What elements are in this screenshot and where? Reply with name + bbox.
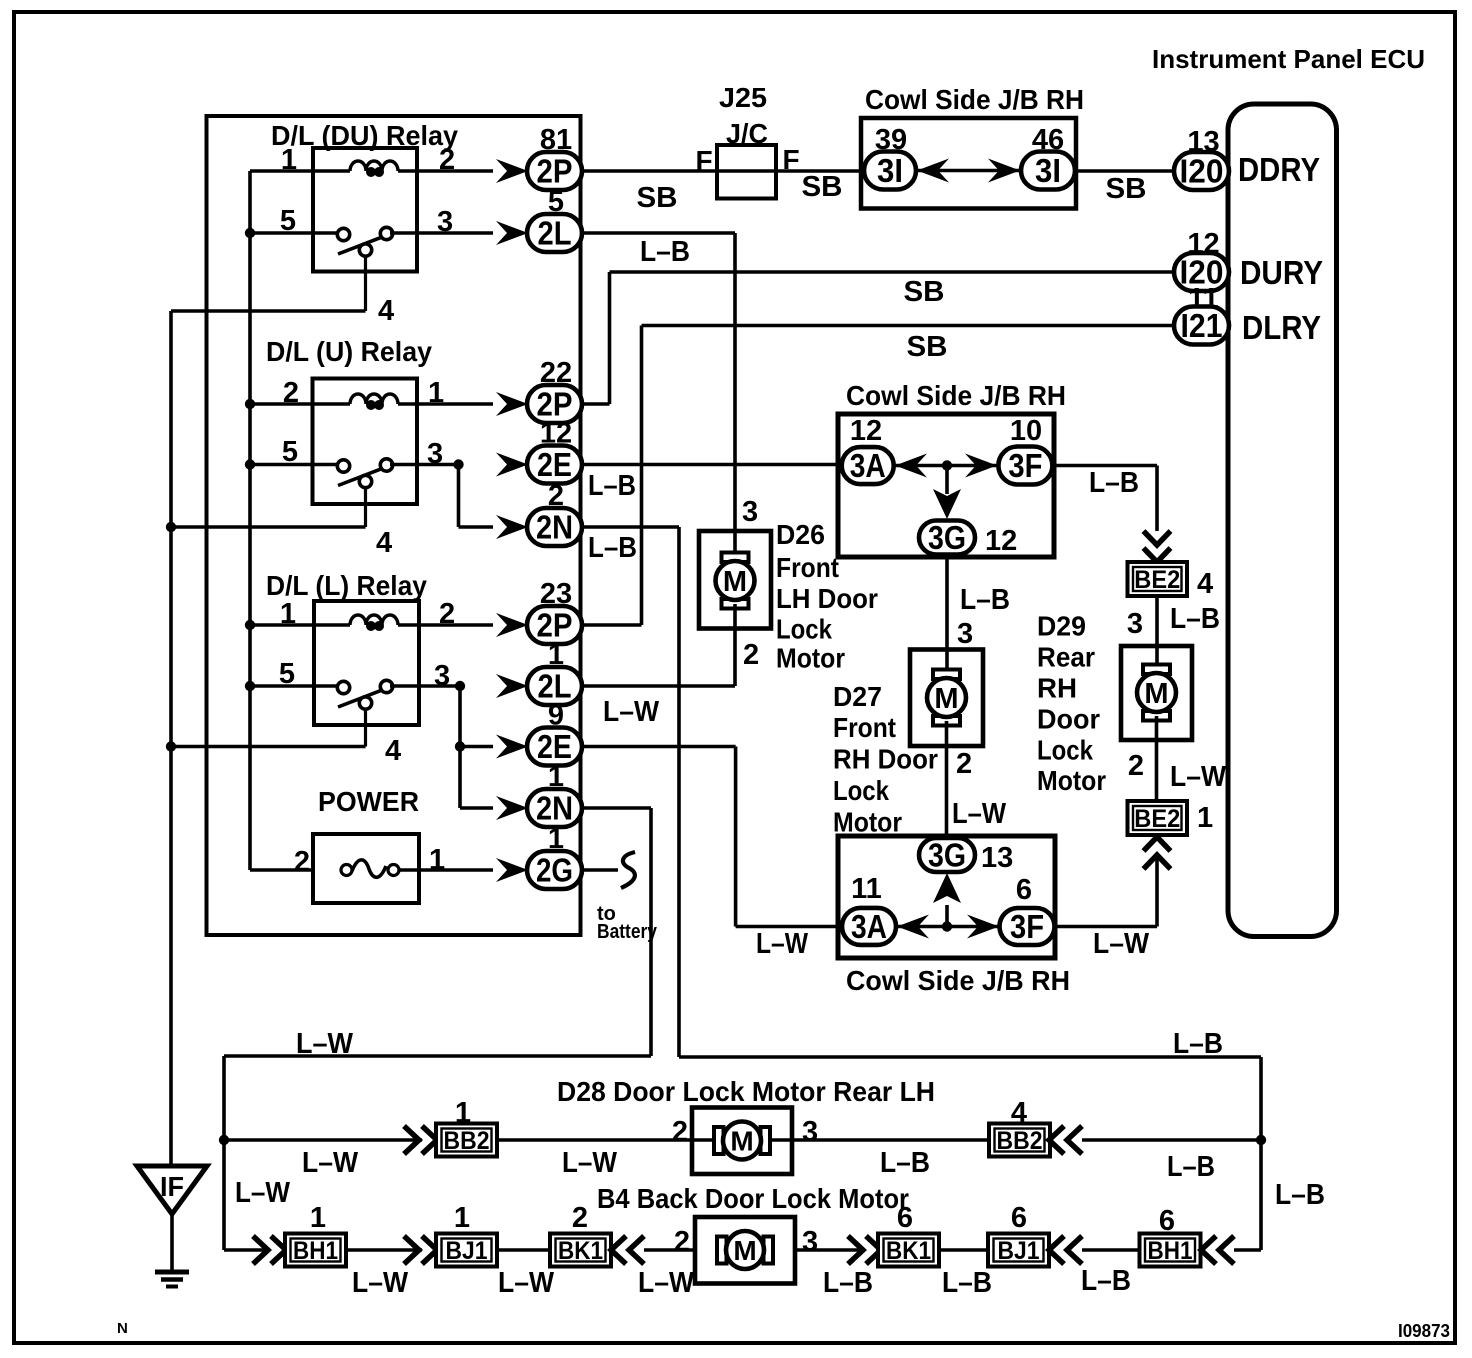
svg-text:L–W: L–W bbox=[638, 1267, 695, 1299]
connector oval 3A pin 11 (bottom) bbox=[842, 908, 896, 945]
connector 2N pin 2 (y=527) arrow bbox=[496, 515, 528, 539]
svg-text:L–W: L–W bbox=[1170, 761, 1227, 793]
svg-text:2: 2 bbox=[572, 1202, 588, 1234]
ground stem bbox=[170, 1214, 174, 1271]
relay D/L (DU) switch bbox=[364, 254, 367, 311]
svg-text:1: 1 bbox=[429, 844, 445, 876]
D29 pin 2 wire to BE2 pin 1 (L-W) bbox=[1155, 716, 1159, 801]
relay D/L (L) coil bbox=[350, 615, 398, 625]
POWER pin 1 wire bbox=[399, 868, 493, 872]
svg-text:3F: 3F bbox=[1008, 447, 1042, 484]
connector box BJ1 pin 6 bbox=[988, 1234, 1049, 1267]
POWER fuse box bbox=[313, 834, 419, 903]
svg-text:4: 4 bbox=[376, 527, 392, 559]
POWER fuse element bbox=[341, 865, 352, 876]
connector box BB2 pin 1 bbox=[436, 1124, 497, 1157]
svg-text:Front: Front bbox=[833, 712, 896, 743]
svg-text:2G: 2G bbox=[536, 852, 573, 889]
chevrons into BH1 pin 1 bbox=[253, 1236, 268, 1264]
connector 2P pin 22 (y=404) arrow bbox=[496, 392, 528, 416]
motor D29 rear RH door lock bbox=[1121, 646, 1192, 740]
svg-text:SB: SB bbox=[907, 331, 948, 363]
wire 3F to BE2 (L-B) bbox=[1053, 464, 1157, 468]
connector oval 2P pin 81 bbox=[527, 152, 582, 190]
svg-text:1: 1 bbox=[548, 761, 564, 793]
svg-text:Motor: Motor bbox=[833, 807, 902, 838]
svg-text:2: 2 bbox=[294, 846, 310, 878]
svg-text:3: 3 bbox=[427, 438, 443, 470]
svg-text:Lock: Lock bbox=[1037, 734, 1093, 765]
svg-text:L–B: L–B bbox=[960, 584, 1010, 616]
svg-text:Motor: Motor bbox=[776, 643, 845, 674]
svg-text:D/L (L) Relay: D/L (L) Relay bbox=[266, 570, 427, 601]
wire B4 motor to BK1 (L-B) bbox=[795, 1248, 864, 1252]
connector oval I20 pin 13 (DDRY) bbox=[1174, 152, 1229, 190]
battery break squiggle bbox=[621, 852, 635, 888]
svg-text:2: 2 bbox=[956, 748, 972, 780]
relay D/L (L) pin 3 wire bbox=[390, 684, 460, 688]
svg-text:5: 5 bbox=[282, 436, 298, 468]
svg-text:3: 3 bbox=[437, 206, 453, 238]
Cowl Side J/B RH box (middle) bbox=[838, 414, 1054, 557]
svg-text:L–B: L–B bbox=[640, 236, 690, 268]
relay D/L (DU) pin 1 wire bbox=[250, 169, 350, 173]
chevrons out of BB2 pin 4 bbox=[1049, 1126, 1064, 1154]
svg-text:11: 11 bbox=[851, 873, 882, 905]
svg-text:J25: J25 bbox=[719, 82, 767, 113]
connector 2E pin 12 (y=464.5) arrow bbox=[496, 453, 528, 477]
svg-text:2: 2 bbox=[283, 377, 299, 409]
svg-text:L–W: L–W bbox=[756, 928, 809, 960]
svg-text:1: 1 bbox=[548, 639, 564, 671]
ground IF triangle bbox=[137, 1166, 207, 1214]
svg-text:SB: SB bbox=[802, 171, 843, 203]
svg-text:L–B: L–B bbox=[1081, 1265, 1131, 1297]
wire 2N(1) right and down to rear door circuits (L-W) bbox=[582, 806, 651, 810]
svg-text:12: 12 bbox=[1187, 228, 1219, 260]
chevrons into BJ1 pin 1 bbox=[404, 1236, 419, 1264]
svg-text:3: 3 bbox=[742, 496, 758, 528]
connector 2E pin 9 (y=746.5) arrow bbox=[496, 735, 528, 759]
svg-text:L–W: L–W bbox=[1093, 928, 1150, 960]
svg-text:1: 1 bbox=[455, 1097, 471, 1129]
junction dots on left bus bbox=[245, 228, 255, 238]
relay D/L (DU) box bbox=[313, 148, 417, 272]
connector oval 3A pin 12 bbox=[842, 447, 894, 484]
relay D/L (DU) pin 5 wire bbox=[250, 231, 338, 235]
svg-text:Cowl Side J/B RH: Cowl Side J/B RH bbox=[846, 965, 1070, 996]
svg-text:12: 12 bbox=[540, 418, 572, 450]
chevrons into BB2 pin 1 bbox=[404, 1126, 419, 1154]
connector oval 3F pin 10 bbox=[998, 447, 1052, 485]
wire B4 row from left vertical bbox=[224, 1248, 270, 1252]
connector oval 2P pin 23 bbox=[527, 606, 582, 644]
svg-text:SB: SB bbox=[904, 276, 945, 308]
relay D/L (DU) pin 3 wire bbox=[390, 231, 493, 235]
svg-text:4: 4 bbox=[1011, 1097, 1027, 1129]
chevrons out of BK1 pin 2 bbox=[611, 1236, 626, 1264]
svg-text:1: 1 bbox=[454, 1202, 470, 1234]
chevrons into BK1 pin 6 bbox=[848, 1236, 863, 1264]
connector oval 3I pin 46 bbox=[1021, 152, 1075, 190]
svg-text:22: 22 bbox=[540, 357, 572, 389]
connector box BK1 pin 6 bbox=[878, 1234, 939, 1267]
svg-text:L–W: L–W bbox=[352, 1267, 409, 1299]
svg-text:Lock: Lock bbox=[833, 775, 889, 806]
svg-text:DDRY: DDRY bbox=[1238, 151, 1320, 188]
connector oval 2E pin 9 bbox=[527, 728, 582, 766]
relay D/L (U) pin 5 wire bbox=[250, 463, 338, 467]
wire BK1 to BJ1 (L-B) bbox=[937, 1248, 990, 1252]
junction dot left D28 bbox=[219, 1135, 229, 1145]
wire BK1 to B4 motor (L-W) bbox=[644, 1248, 695, 1252]
connector 2N pin 1 (y=808) arrow bbox=[496, 796, 528, 820]
relay D/L (DU) coil bbox=[350, 161, 398, 171]
svg-text:2: 2 bbox=[439, 144, 455, 176]
svg-text:Cowl Side J/B RH: Cowl Side J/B RH bbox=[846, 380, 1066, 411]
relay D/L (DU) pin 2 wire bbox=[398, 169, 493, 173]
svg-text:2: 2 bbox=[548, 480, 564, 512]
wire 2E(12) to cowl 3A (L-B) bbox=[582, 463, 843, 467]
svg-text:BH1: BH1 bbox=[293, 1237, 338, 1265]
arrow into 3A bbox=[895, 454, 927, 478]
junction block J25 J/C box bbox=[717, 145, 776, 199]
wire 2P(22) up and right to I20 DURY (SB) bbox=[582, 402, 610, 406]
relay D/L (U) pin 4 wire to ground bus bbox=[171, 525, 366, 529]
connector oval 3I pin 39 bbox=[864, 152, 916, 190]
wire 3A to 3F bbox=[894, 464, 998, 468]
svg-text:BH1: BH1 bbox=[1148, 1237, 1193, 1265]
far-left ground wire vertical x=171 bbox=[169, 311, 173, 1166]
svg-text:12: 12 bbox=[985, 525, 1017, 557]
arrow into 3F (bottom) bbox=[967, 915, 999, 939]
svg-text:3: 3 bbox=[802, 1226, 818, 1258]
connector box BK1 pin 2 bbox=[550, 1234, 611, 1267]
svg-text:2: 2 bbox=[743, 639, 759, 671]
connector oval 2N pin 1 bbox=[527, 789, 582, 827]
svg-text:1: 1 bbox=[548, 823, 564, 855]
svg-text:5: 5 bbox=[548, 186, 564, 218]
svg-text:4: 4 bbox=[378, 295, 394, 327]
svg-text:M: M bbox=[723, 566, 747, 598]
relay D/L (U) coil bbox=[350, 394, 398, 404]
svg-text:L–W: L–W bbox=[562, 1147, 618, 1179]
svg-text:Rear: Rear bbox=[1037, 642, 1095, 673]
svg-text:6: 6 bbox=[1016, 874, 1032, 906]
chevrons out of BE2 pin 1 bbox=[1144, 837, 1171, 851]
left bus wire vertical x=250 bbox=[248, 171, 252, 870]
svg-text:46: 46 bbox=[1032, 124, 1064, 156]
svg-text:2L: 2L bbox=[538, 215, 572, 252]
connector oval 3F pin 6 (bottom) bbox=[1000, 908, 1055, 945]
arrow into 3A (bottom) bbox=[897, 915, 929, 939]
relay D/L (L) box bbox=[314, 601, 419, 725]
junction dot to 3G bbox=[942, 460, 952, 470]
svg-text:3A: 3A bbox=[850, 447, 886, 484]
connector box BE2 pin 4 bbox=[1128, 562, 1188, 596]
svg-text:5: 5 bbox=[279, 658, 295, 690]
wire 2P(81) to J25 J/C and cowl side J/B (SB) bbox=[582, 169, 864, 173]
svg-text:D/L (U) Relay: D/L (U) Relay bbox=[266, 336, 432, 367]
connector 2P pin 81 (y=171) arrow bbox=[496, 159, 528, 183]
svg-text:RH Door: RH Door bbox=[833, 744, 938, 775]
wire 2G to battery bbox=[582, 868, 618, 872]
wire 2P(23) up and right to I21 DLRY (SB) bbox=[582, 623, 642, 627]
svg-text:L–B: L–B bbox=[1170, 603, 1220, 635]
svg-text:F: F bbox=[782, 144, 799, 175]
svg-text:39: 39 bbox=[875, 124, 907, 156]
wire 2E(12) junction to 2N(2) bbox=[457, 465, 461, 528]
svg-text:L–B: L–B bbox=[942, 1267, 992, 1299]
svg-text:6: 6 bbox=[1159, 1205, 1175, 1237]
junction dot below 3G bbox=[942, 921, 952, 931]
svg-text:3: 3 bbox=[434, 660, 450, 692]
svg-text:L–B: L–B bbox=[1173, 1028, 1223, 1060]
svg-text:Lock: Lock bbox=[776, 614, 832, 645]
junction dots on ground bus bbox=[166, 522, 176, 532]
svg-text:2: 2 bbox=[1128, 750, 1144, 782]
connector box BE2 pin 1 bbox=[1128, 801, 1188, 835]
svg-text:D27: D27 bbox=[833, 681, 882, 712]
svg-text:BJ1: BJ1 bbox=[998, 1237, 1040, 1265]
svg-text:81: 81 bbox=[540, 124, 572, 156]
connector oval I21 pin 11 (DLRY) bbox=[1174, 307, 1229, 345]
svg-text:10: 10 bbox=[1010, 415, 1042, 447]
svg-text:L–W: L–W bbox=[498, 1267, 555, 1299]
connector oval 2P pin 22 bbox=[527, 385, 582, 423]
relay/fuse block outer box bbox=[207, 116, 581, 935]
arrow into 3F bbox=[965, 454, 997, 478]
connector box BB2 pin 4 bbox=[989, 1124, 1050, 1157]
connector 2L pin 5 (y=233) arrow bbox=[496, 221, 528, 245]
svg-text:6: 6 bbox=[1011, 1202, 1027, 1234]
svg-text:2P: 2P bbox=[537, 607, 573, 644]
wire 2E(9) down to bottom cowl 3A (L-W) bbox=[582, 745, 736, 749]
up arrow into 3G bbox=[945, 905, 949, 927]
svg-text:3I: 3I bbox=[877, 152, 903, 189]
svg-text:3A: 3A bbox=[851, 908, 887, 945]
svg-text:L–B: L–B bbox=[588, 470, 636, 502]
relay D/L (U) pin 3 wire bbox=[390, 463, 459, 467]
wire D28 row left (L-W) bbox=[224, 1138, 422, 1142]
motor B4 back door lock bbox=[695, 1217, 795, 1284]
svg-text:BE2: BE2 bbox=[1134, 566, 1180, 594]
relay D/L (DU) pin 4 wire to ground bus bbox=[171, 309, 366, 313]
relay D/L (U) pin 1 wire bbox=[398, 402, 493, 406]
svg-text:IF: IF bbox=[160, 1171, 184, 1202]
svg-text:M: M bbox=[733, 1235, 756, 1266]
svg-text:Motor: Motor bbox=[1037, 765, 1106, 796]
relay D/L (U) pin 2 wire bbox=[250, 402, 350, 406]
D26 pin 2 wire to 2L(1) bbox=[733, 604, 737, 686]
svg-text:BE2: BE2 bbox=[1134, 805, 1180, 833]
wire BB2 pin4 to right vertical (L-B) bbox=[1082, 1138, 1261, 1142]
svg-text:BK1: BK1 bbox=[886, 1237, 931, 1265]
svg-text:3: 3 bbox=[802, 1116, 818, 1148]
svg-text:23: 23 bbox=[540, 578, 572, 610]
svg-text:DLRY: DLRY bbox=[1242, 309, 1321, 346]
connector oval 3G pin 13 (bottom) bbox=[919, 838, 975, 872]
connector oval 2G pin 1 bbox=[527, 851, 582, 889]
relay D/L (L) pin 1 wire bbox=[250, 623, 350, 627]
svg-text:1: 1 bbox=[281, 144, 297, 176]
svg-text:6: 6 bbox=[897, 1202, 913, 1234]
svg-text:BK1: BK1 bbox=[558, 1237, 603, 1265]
svg-text:L–B: L–B bbox=[1275, 1179, 1325, 1211]
svg-text:13: 13 bbox=[1187, 126, 1219, 158]
svg-text:LH Door: LH Door bbox=[776, 583, 878, 614]
svg-text:2N: 2N bbox=[536, 509, 573, 546]
chevrons into BE2 pin 4 bbox=[1144, 531, 1171, 545]
arrow into left 3I bbox=[917, 159, 949, 183]
svg-text:3I: 3I bbox=[1035, 152, 1061, 189]
relay D/L (U) box bbox=[313, 379, 418, 505]
wire down to 3G with arrow bbox=[945, 466, 949, 495]
svg-text:Instrument Panel ECU: Instrument Panel ECU bbox=[1152, 44, 1425, 74]
wire 3G to D27 pin 3 (L-B) bbox=[945, 555, 949, 675]
relay D/L (U) switch bbox=[364, 486, 367, 528]
svg-text:L–B: L–B bbox=[1089, 467, 1139, 499]
connector oval 2N pin 2 bbox=[527, 508, 582, 546]
wire right 3I to I20 DDRY (SB) bbox=[1075, 169, 1175, 173]
svg-text:2: 2 bbox=[439, 598, 455, 630]
svg-text:4: 4 bbox=[1197, 568, 1213, 600]
svg-text:9: 9 bbox=[548, 700, 564, 732]
svg-text:M: M bbox=[730, 1126, 753, 1157]
connector 2L pin 1 (y=686) arrow bbox=[496, 674, 528, 698]
motor D26 front LH door lock bbox=[699, 531, 771, 629]
relay D/L (L) pin 5 wire bbox=[250, 684, 338, 688]
svg-text:J/C: J/C bbox=[726, 118, 768, 149]
motor D27 front RH door lock bbox=[910, 650, 983, 747]
svg-text:I20: I20 bbox=[1180, 153, 1224, 190]
wire BE2 down to bottom cowl 3F wire bbox=[1155, 855, 1159, 927]
svg-text:N: N bbox=[117, 1320, 128, 1337]
svg-text:1: 1 bbox=[310, 1202, 326, 1234]
svg-text:Cowl Side J/B RH: Cowl Side J/B RH bbox=[865, 84, 1084, 115]
connector box BJ1 pin 1 bbox=[436, 1234, 497, 1267]
wire 2L(5) to D26 pin 3 (L-B) bbox=[582, 231, 735, 235]
wire 2N(2) right and down to rear door circuits (L-B) bbox=[582, 525, 679, 529]
junction dot right D28 bbox=[1256, 1135, 1266, 1145]
svg-text:DURY: DURY bbox=[1240, 254, 1323, 291]
connector oval 2E pin 12 bbox=[527, 446, 582, 484]
Cowl Side J/B RH box (top) bbox=[861, 118, 1076, 209]
svg-text:BJ1: BJ1 bbox=[446, 1237, 488, 1265]
svg-text:D28 Door Lock Motor Rear LH: D28 Door Lock Motor Rear LH bbox=[557, 1076, 935, 1107]
connector box BH1 pin 6 bbox=[1140, 1234, 1201, 1267]
svg-text:POWER: POWER bbox=[318, 786, 419, 817]
svg-text:I09873: I09873 bbox=[1398, 1321, 1450, 1341]
wire 2L(1) junction down to 2E(9) and 2N(1) bbox=[458, 686, 462, 808]
wire BJ1 to BK1 (L-W) bbox=[497, 1248, 552, 1252]
motor D28 rear LH door lock bbox=[692, 1108, 792, 1175]
svg-text:3G: 3G bbox=[928, 519, 966, 556]
svg-text:1: 1 bbox=[428, 377, 444, 409]
svg-text:L–W: L–W bbox=[235, 1177, 291, 1209]
svg-text:2: 2 bbox=[674, 1226, 690, 1258]
wire junction to 2E(9) arrow bbox=[460, 745, 493, 749]
connector 2P pin 23 (y=625) arrow bbox=[496, 613, 528, 637]
svg-text:L–W: L–W bbox=[952, 798, 1007, 830]
svg-text:2N: 2N bbox=[536, 790, 573, 827]
svg-text:3: 3 bbox=[1127, 608, 1143, 640]
svg-text:L–W: L–W bbox=[603, 696, 660, 728]
D27 pin 2 wire down to 3G (L-W) bbox=[945, 721, 949, 840]
svg-text:2E: 2E bbox=[537, 728, 572, 765]
connector oval 2L pin 1 bbox=[527, 667, 582, 705]
svg-text:2E: 2E bbox=[537, 446, 572, 483]
svg-text:BB2: BB2 bbox=[997, 1127, 1043, 1155]
connector oval I20 pin 12 (DURY) bbox=[1174, 253, 1229, 291]
svg-text:12: 12 bbox=[850, 415, 882, 447]
svg-text:1: 1 bbox=[280, 598, 296, 630]
svg-text:5: 5 bbox=[280, 205, 296, 237]
wire BJ1 to BH1 (L-B) bbox=[1082, 1248, 1140, 1252]
relay D/L (L) switch bbox=[364, 707, 367, 747]
svg-text:3: 3 bbox=[957, 618, 973, 650]
svg-text:2: 2 bbox=[672, 1116, 688, 1148]
svg-text:D26: D26 bbox=[776, 519, 825, 550]
svg-text:L–B: L–B bbox=[823, 1267, 873, 1299]
wire between 3I connectors bbox=[916, 169, 1021, 173]
wire BB2 to D28 motor (L-W) bbox=[497, 1138, 990, 1142]
Instrument Panel ECU box bbox=[1228, 104, 1337, 937]
connector oval 2L pin 5 bbox=[527, 214, 582, 252]
connector box BH1 pin 1 bbox=[285, 1234, 346, 1267]
svg-text:13: 13 bbox=[981, 842, 1013, 874]
wire BE2 to D29 pin 3 (L-B) bbox=[1155, 596, 1159, 668]
svg-text:M: M bbox=[1144, 678, 1168, 710]
chevrons out of BJ1 pin 6 bbox=[1049, 1236, 1064, 1264]
svg-text:L–B: L–B bbox=[880, 1147, 930, 1179]
svg-text:BB2: BB2 bbox=[444, 1127, 490, 1155]
svg-text:Battery: Battery bbox=[597, 921, 658, 943]
svg-text:F: F bbox=[695, 145, 712, 176]
connector oval 3G pin 12 bbox=[919, 521, 975, 555]
svg-text:1: 1 bbox=[1197, 802, 1213, 834]
svg-text:11: 11 bbox=[1188, 283, 1219, 315]
wire BH1 to BJ1 (L-W) bbox=[346, 1248, 422, 1252]
chevrons out of BH1 pin 6 bbox=[1201, 1236, 1216, 1264]
svg-text:B4 Back Door Lock Motor: B4 Back Door Lock Motor bbox=[597, 1183, 909, 1214]
svg-text:SB: SB bbox=[637, 182, 678, 214]
svg-text:L–B: L–B bbox=[588, 532, 637, 564]
svg-text:L–B: L–B bbox=[1167, 1151, 1215, 1183]
svg-text:4: 4 bbox=[385, 735, 401, 767]
Cowl Side J/B RH box (bottom) bbox=[838, 836, 1055, 958]
svg-text:SB: SB bbox=[1106, 173, 1147, 205]
ground bars bbox=[155, 1270, 189, 1275]
svg-text:RH: RH bbox=[1037, 672, 1077, 703]
bus wire to POWER pin 2 bbox=[250, 868, 313, 872]
svg-text:3G: 3G bbox=[928, 837, 966, 874]
arrow into right 3I bbox=[988, 159, 1020, 183]
connector 2G pin 1 (y=870) arrow bbox=[496, 858, 528, 882]
wire 3A to 3F (bottom) bbox=[896, 925, 999, 929]
svg-text:M: M bbox=[934, 683, 958, 715]
wire BH1 to right vertical bbox=[1234, 1248, 1261, 1252]
relay D/L (L) pin 2 wire bbox=[398, 623, 493, 627]
svg-text:L–W: L–W bbox=[296, 1028, 354, 1060]
svg-text:Front: Front bbox=[776, 552, 839, 583]
svg-text:L–W: L–W bbox=[302, 1147, 359, 1179]
svg-text:D29: D29 bbox=[1037, 611, 1086, 642]
relay D/L (L) pin 4 wire to ground bus bbox=[171, 745, 366, 749]
svg-text:Door: Door bbox=[1037, 703, 1100, 734]
svg-text:3F: 3F bbox=[1010, 908, 1044, 945]
svg-text:2P: 2P bbox=[537, 153, 573, 190]
